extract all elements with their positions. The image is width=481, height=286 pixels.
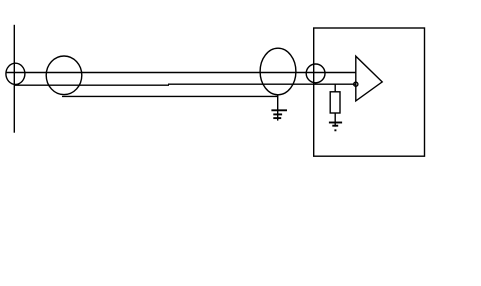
enclosure box [314,28,425,156]
wire: ground lead below T2 [277,95,279,121]
connector J2 (small circle at enclosure wall) [306,64,325,83]
transformer T1 (left coupling ellipse) [46,56,82,95]
resistor R1 (termination) [330,92,340,113]
op-amp A1 (amplifier triangle) [356,56,382,101]
ground (below T2) [271,110,287,118]
wire: middle conductor (line 2) left segment [14,84,169,86]
ground (below R1) [329,123,342,131]
connector J1 (small circle on bus) [6,63,25,84]
wire: vertical input bus line [13,25,15,133]
wire: top conductor (line 1) from J1 to amplifier input [6,72,356,74]
wire: middle conductor (line 2) right segment to node [168,83,356,85]
node (junction bubble at amplifier) [354,82,358,86]
transformer T2 (right coupling ellipse) [260,48,296,95]
wire: resistor top lead [334,84,336,92]
wire: resistor bottom lead [334,113,336,127]
wire: bottom conductor (line 3) from T1 to ground lead [62,95,278,97]
